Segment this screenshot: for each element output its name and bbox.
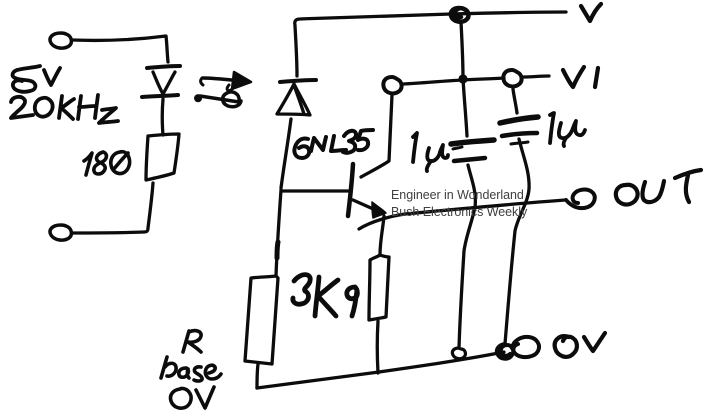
label V — [581, 4, 601, 21]
wire emitter to OUT — [359, 200, 565, 229]
wire source top to D1 — [72, 36, 168, 62]
node V1 cap2 — [503, 70, 521, 86]
junction dot V/V1 — [458, 74, 467, 83]
terminal OUT — [566, 190, 595, 209]
watermark — [391, 187, 527, 222]
wire LED cathode — [281, 119, 291, 188]
wire V rail — [295, 12, 566, 25]
label 3K9 — [293, 275, 358, 316]
node 0V junction — [497, 344, 513, 359]
wire Q1 base lead — [282, 189, 351, 192]
wire R3 to 0V rail — [376, 321, 380, 373]
wire R2 to 0V rail — [257, 364, 258, 388]
capacitor C2 — [500, 117, 538, 136]
wire V1 rail — [403, 76, 549, 84]
terminal 0V — [512, 337, 539, 357]
label 6N135 — [294, 130, 373, 158]
wire C1 to 0V rail — [459, 165, 475, 348]
wire V1 node to C2 — [513, 89, 517, 113]
wire D1 to R1 — [161, 99, 165, 135]
light arrow upper — [201, 72, 251, 91]
label 1u C2 — [550, 113, 585, 146]
wire V node to C1 — [461, 22, 467, 136]
diode D1 — [142, 66, 180, 97]
wire C2 to 0V terminal — [505, 139, 529, 344]
resistor R3 — [369, 255, 389, 320]
label 180 — [84, 152, 130, 175]
wire R2 from base corner — [276, 190, 281, 276]
transistor Q1 emitter — [353, 200, 386, 218]
label R base 0V — [161, 331, 221, 409]
terminal T1 source top — [50, 33, 71, 48]
label 5V — [13, 66, 60, 92]
resistor R2 Rbase — [245, 276, 278, 364]
resistor R1 (180) — [146, 134, 179, 180]
LED D2 opto — [277, 80, 316, 115]
label 1u C1 — [413, 133, 448, 171]
terminal T2 source bottom — [50, 225, 71, 240]
light arrow lower — [195, 92, 241, 107]
transistor Q1 base bar — [348, 164, 353, 216]
capacitor C1 — [451, 140, 494, 161]
wire 0V rail — [257, 352, 504, 388]
label V1 — [563, 67, 598, 87]
label 20KHz — [11, 95, 118, 123]
wire emitter junction to R3 — [380, 216, 384, 255]
wire R1 to terminal T2 — [72, 183, 153, 233]
wire LED anode — [295, 26, 297, 76]
node V1 — [383, 77, 401, 93]
node V — [451, 8, 469, 22]
wire Q1 collector from node V1 — [361, 95, 392, 177]
label OUT — [616, 170, 701, 205]
label 0V — [555, 333, 605, 357]
node C1 0V — [452, 348, 465, 359]
